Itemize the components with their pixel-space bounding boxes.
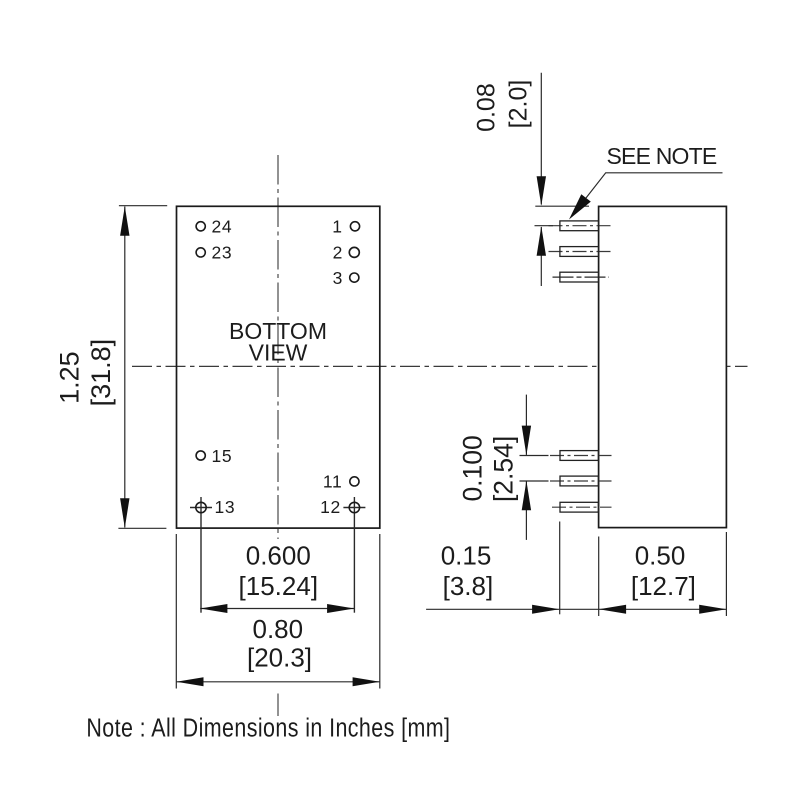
arrow down [120,498,129,528]
side view pin row 13 centerline [552,506,612,508]
pin 11 [350,477,359,486]
svg-text:VIEW: VIEW [249,339,308,365]
side view pin row 13 [560,502,598,512]
arrow right [353,677,380,686]
dimension 0.100 line lower [525,481,527,540]
arrow right [327,604,354,613]
arrow down to case top [537,176,546,206]
dimension 1.25 [31.8] height: extension lines [119,205,167,207]
SEE NOTE leader arrowhead [569,194,591,219]
arrow left [200,604,227,613]
svg-text:[31.8]: [31.8] [86,339,116,407]
dimension 0.08 line upper [540,73,542,205]
svg-text:[12.7]: [12.7] [631,571,696,601]
dimension line 0.15 / 0.50 [426,608,726,610]
arrow up [522,481,531,511]
arrow left at case left [599,605,626,614]
svg-text:13: 13 [215,497,236,517]
pin 13 (mounting reference crosshair) [190,497,212,613]
extension line at case left [598,537,600,617]
svg-text:2: 2 [333,243,343,263]
extension tick at pin 1 centerline [535,225,554,227]
SEE NOTE leader line [572,173,723,217]
svg-text:12: 12 [320,497,341,517]
case outline (side view) [599,206,727,527]
side view pin 3 [560,272,599,282]
svg-text:0.600: 0.600 [246,540,311,570]
svg-text:1.25: 1.25 [55,351,85,404]
side view pin row 14 [560,476,598,486]
arrow up [120,206,129,236]
svg-text:1: 1 [332,217,342,237]
svg-text:Note : All Dimensions in Inche: Note : All Dimensions in Inches [mm] [86,714,450,743]
pin 12 (mounting reference crosshair) [343,497,365,613]
pin 1 [350,222,359,231]
svg-text:0.50: 0.50 [635,541,686,571]
svg-text:0.80: 0.80 [252,614,303,644]
arrow up to pin centerline [537,226,546,256]
side view pin row 15 centerline [550,455,612,457]
side view pin 2 [560,247,599,257]
case outline (bottom view) [177,206,380,528]
svg-text:0.100: 0.100 [457,435,487,501]
svg-text:[20.3]: [20.3] [247,642,312,672]
dimension 1.25 [31.8] line [124,207,126,528]
svg-text:0.15: 0.15 [441,541,492,571]
side view pin 1 [560,221,599,231]
svg-text:[15.24]: [15.24] [239,571,319,601]
svg-text:24: 24 [212,217,233,237]
dimension 0.100 line upper [525,395,527,455]
arrow right at case right [699,605,726,614]
svg-text:15: 15 [212,446,233,466]
bottom dimensions: extension line at pin tips [559,522,561,615]
dimension 0.08 [2.0]: extension tick (case top extended) [535,205,589,207]
svg-text:0.08: 0.08 [473,83,501,132]
side view pin row 14 centerline [550,480,612,482]
pin 23 [196,248,205,257]
side view pin 3 centerline [553,276,610,278]
pin 3 [350,273,359,282]
side view pin 1 centerline [549,225,613,227]
dimension 0.600 [15.24] line [200,608,354,610]
pin 24 [196,222,205,231]
dimension 0.100 [2.54]: ticks at pin centerlines [520,455,549,457]
svg-text:11: 11 [323,472,343,492]
svg-text:[2.0]: [2.0] [505,80,533,129]
svg-text:[2.54]: [2.54] [489,436,519,502]
side view pin 2 centerline [549,251,612,253]
pin 2 [349,247,359,257]
svg-text:23: 23 [212,243,233,263]
dimension 0.80 [20.3] extension lines [175,534,177,689]
extension line at case right [725,532,727,616]
arrow down [522,426,531,456]
arrow left [176,677,203,686]
dimension 0.08 line lower [540,227,542,286]
vertical centerline (bottom view) [277,155,279,539]
side view pin row 15 [560,451,598,461]
horizontal centerline (main axis) [132,365,748,367]
svg-text:3: 3 [333,268,343,288]
pin 15 [196,451,205,460]
svg-text:SEE NOTE: SEE NOTE [607,143,717,169]
svg-text:[3.8]: [3.8] [443,571,494,601]
arrow right to pin tip [532,605,559,614]
dimension 0.80 [20.3] line [176,681,379,683]
